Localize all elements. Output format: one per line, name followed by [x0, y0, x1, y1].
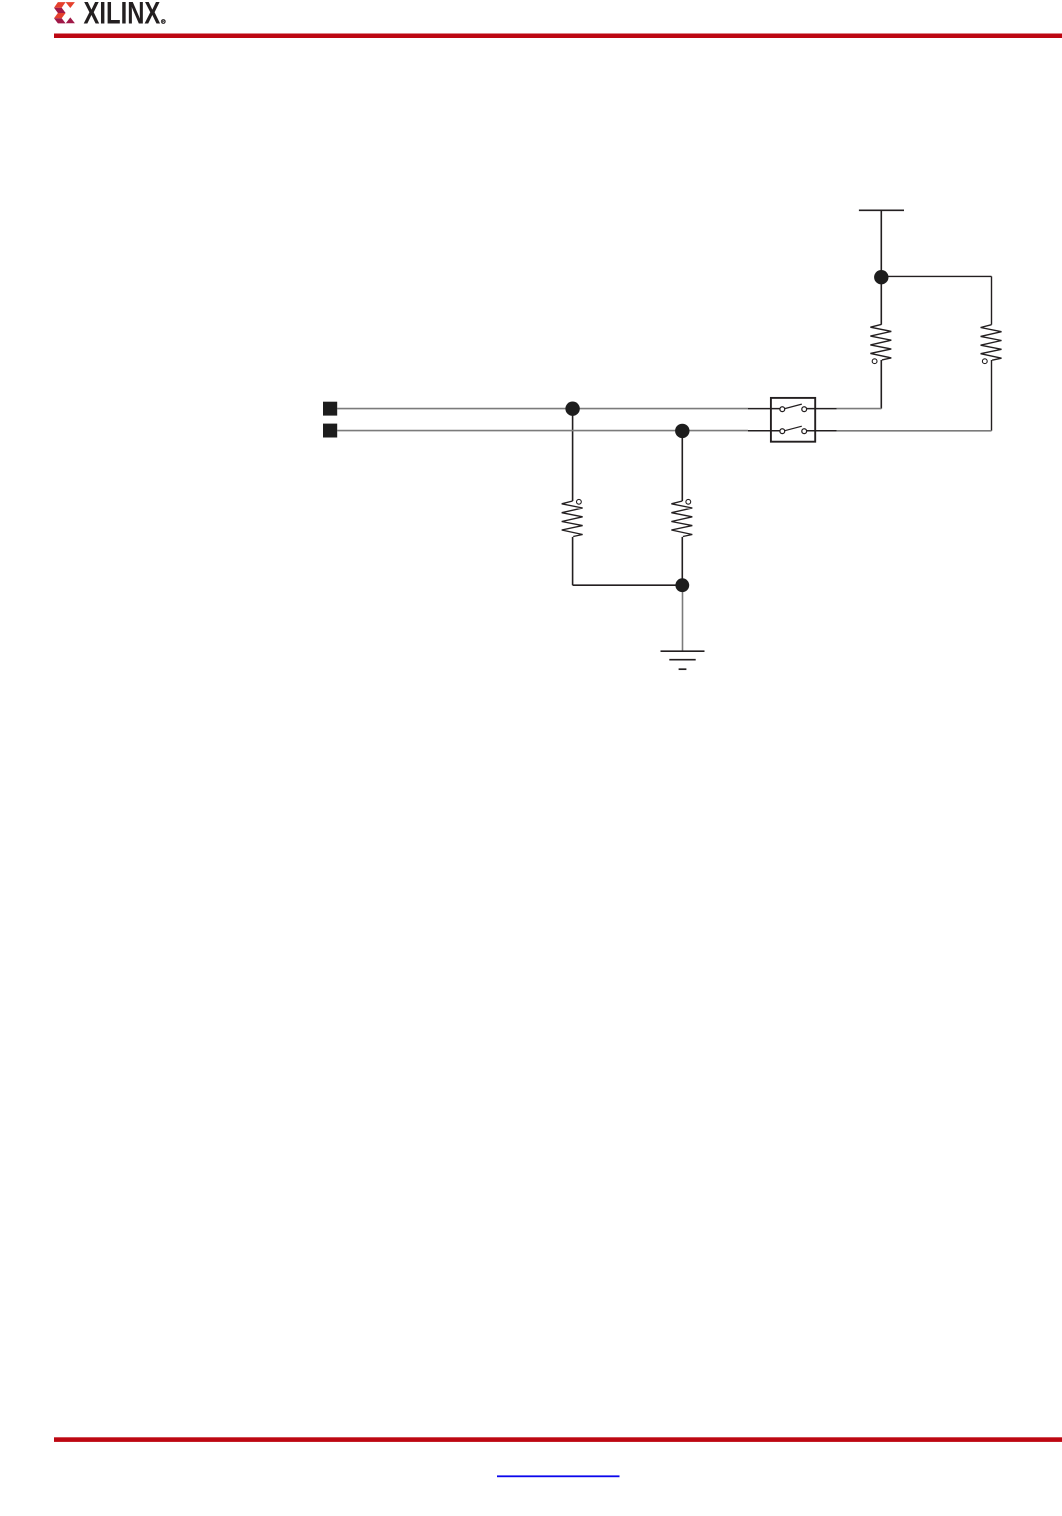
svg-text:XILINX: XILINX — [84, 0, 161, 31]
